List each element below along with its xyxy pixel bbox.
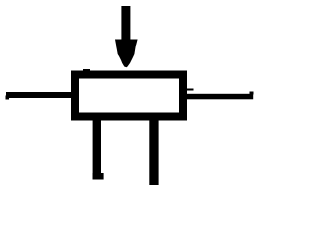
wire left lead — [6, 92, 72, 98]
wire right lead — [186, 94, 253, 100]
wire bottom-left line — [93, 116, 101, 180]
wire bottom-right line — [149, 116, 158, 185]
arrow shaft — [121, 6, 130, 41]
body box — [75, 75, 183, 117]
pressure transducer symbol X1 — [0, 0, 257, 190]
wire bottom-left foot — [93, 173, 104, 180]
arrowhead — [115, 40, 138, 68]
